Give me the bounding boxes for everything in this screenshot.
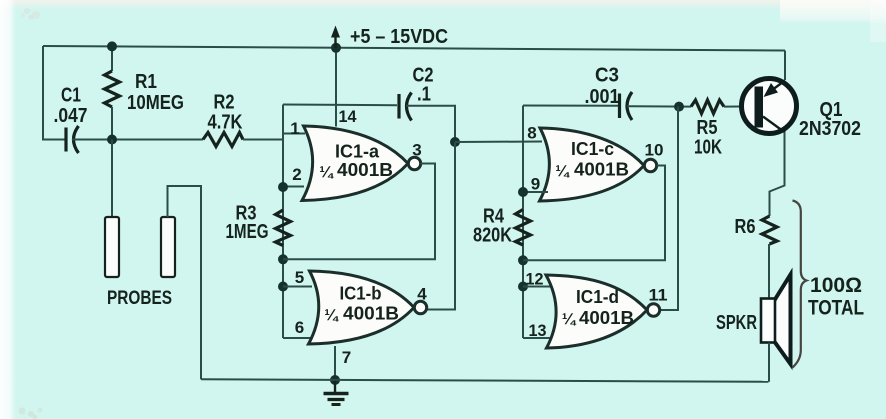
op-amp gate IC1-c	[540, 128, 657, 201]
label C1 .047	[54, 85, 88, 128]
ground	[324, 380, 349, 405]
op-amp gate IC1-a	[302, 126, 421, 201]
label R2 4.7K	[208, 92, 243, 134]
svg-text:8: 8	[527, 124, 536, 143]
label C3 .001	[585, 65, 620, 109]
scan speckles top-left	[21, 8, 40, 20]
wire pin 1 stub	[283, 133, 305, 135]
svg-text:SPKR: SPKR	[716, 312, 757, 334]
svg-text:IC1-c: IC1-c	[571, 138, 614, 159]
wire C2 link line	[283, 104, 397, 107]
wire pin 9 stub	[523, 191, 548, 193]
wire C3 to R5	[627, 105, 691, 107]
svg-text:9: 9	[531, 175, 540, 194]
label 100ohm TOTAL	[808, 274, 864, 320]
svg-text:10MEG: 10MEG	[127, 92, 184, 114]
svg-text:.047: .047	[54, 105, 88, 127]
svg-text:R1: R1	[135, 71, 157, 93]
probe 1	[105, 217, 119, 277]
node pin2 junction	[278, 182, 288, 192]
label R5 10K	[694, 117, 722, 159]
transistor Q1	[742, 79, 797, 134]
wire output4 riser	[428, 142, 456, 310]
wire emitter to rail	[784, 51, 786, 81]
svg-text:.001: .001	[585, 86, 620, 108]
svg-text:10K: 10K	[694, 137, 722, 159]
op-amp gate IC1-b	[309, 271, 427, 344]
resistor R2	[203, 133, 243, 147]
svg-text:4.7K: 4.7K	[208, 112, 243, 134]
svg-text:6: 6	[295, 318, 304, 337]
svg-text:TOTAL: TOTAL	[808, 297, 864, 320]
svg-text:1MEG: 1MEG	[226, 221, 269, 243]
capacitor C3	[620, 92, 633, 120]
node pin14 power	[331, 43, 341, 53]
svg-text:11: 11	[649, 286, 668, 305]
wire C2 to pin8 corner	[406, 106, 455, 142]
wire pin 12 stub	[523, 286, 552, 288]
node pin9 junction	[518, 187, 528, 197]
wire R5 to base	[724, 105, 755, 107]
svg-text:100Ω: 100Ω	[810, 274, 862, 297]
scan speckles bottom-left	[19, 408, 43, 419]
svg-text:12: 12	[526, 270, 544, 289]
wire C1 to R2	[72, 139, 203, 141]
svg-text:4001B: 4001B	[574, 159, 629, 180]
label R4 820K	[473, 206, 512, 247]
svg-text:4: 4	[417, 285, 427, 304]
label R3 1MEG	[226, 203, 269, 244]
svg-text:820K: 820K	[473, 225, 512, 247]
wire pin 13 stub	[523, 337, 554, 339]
svg-text:10: 10	[645, 141, 664, 160]
svg-text:C1: C1	[61, 85, 81, 107]
svg-text:4001B: 4001B	[337, 159, 393, 180]
node ground junction	[330, 375, 340, 385]
svg-text:2N3702: 2N3702	[799, 118, 861, 140]
svg-text:R6: R6	[735, 216, 756, 238]
capacitor C2	[399, 93, 412, 121]
svg-text:7: 7	[342, 348, 351, 367]
node pin8 junction	[450, 137, 460, 147]
wire pin 7 drop	[334, 346, 336, 380]
svg-text:4001B: 4001B	[343, 303, 399, 324]
wire C3 link line	[523, 105, 619, 107]
svg-text:IC1-d: IC1-d	[576, 286, 619, 307]
wire speaker to rail	[768, 343, 770, 382]
wire output11 riser	[660, 107, 678, 310]
wire R6 to speaker	[768, 244, 770, 299]
svg-text:.1: .1	[417, 84, 431, 106]
capacitor C1	[66, 126, 79, 153]
wire pin 8 line	[455, 141, 542, 144]
node feedback junction on chain	[278, 254, 288, 264]
resistor R1	[105, 47, 120, 140]
wire probe1 drop	[111, 140, 113, 218]
label Q1 2N3702	[799, 99, 861, 140]
wire output10 feedback	[523, 166, 665, 261]
wire pin 2 stub	[283, 186, 304, 188]
label C2 .1	[413, 65, 434, 106]
wire bottom ground rail	[201, 379, 769, 382]
svg-text:¼: ¼	[324, 307, 339, 324]
resistor R4	[516, 210, 531, 246]
node C1/R1/probe junction	[107, 135, 117, 145]
svg-text:1: 1	[290, 119, 299, 138]
resistor R3	[276, 210, 291, 246]
svg-text:13: 13	[529, 321, 547, 340]
svg-text:IC1-b: IC1-b	[340, 283, 382, 304]
svg-text:R2: R2	[214, 92, 235, 114]
svg-text:5: 5	[295, 268, 304, 287]
speaker SPKR	[761, 275, 791, 365]
svg-text:3: 3	[412, 141, 421, 160]
wire pin 14	[335, 48, 337, 127]
wire top power rail	[43, 46, 785, 51]
wire collector drop	[770, 132, 785, 216]
brace 100 ohm total	[793, 201, 807, 368]
wire output3 feedback	[283, 164, 435, 260]
svg-text:¼: ¼	[319, 164, 334, 181]
svg-text:2: 2	[292, 165, 301, 184]
node fb10 junction	[518, 255, 528, 265]
wire left input chain vertical	[282, 105, 284, 339]
op-amp gate IC1-d	[546, 275, 660, 348]
svg-text:PROBES: PROBES	[107, 287, 172, 309]
wire pin 6 stub	[283, 337, 314, 339]
node base junction	[674, 102, 684, 112]
svg-text:C3: C3	[595, 65, 619, 87]
wire left drop to C1	[43, 46, 66, 140]
wire pin 5 stub	[283, 286, 312, 288]
resistor R6	[762, 216, 777, 244]
wire R2 to input chain	[243, 139, 283, 141]
svg-text:14: 14	[339, 107, 358, 126]
resistor R5	[691, 100, 724, 114]
label R1 10MEG	[127, 71, 184, 114]
svg-text:+5 – 15VDC: +5 – 15VDC	[350, 26, 448, 48]
svg-text:¼: ¼	[562, 311, 577, 328]
node pin5 junction	[278, 282, 288, 292]
wire right input chain vertical	[522, 106, 524, 339]
probe 2	[161, 217, 175, 277]
svg-text:4001B: 4001B	[579, 307, 634, 328]
power arrow +5-15VDC	[331, 26, 448, 49]
svg-text:¼: ¼	[555, 163, 570, 180]
node R1 top	[107, 41, 117, 51]
node pin12 junction	[518, 282, 528, 292]
wire probe2 to ground rail	[168, 186, 202, 379]
